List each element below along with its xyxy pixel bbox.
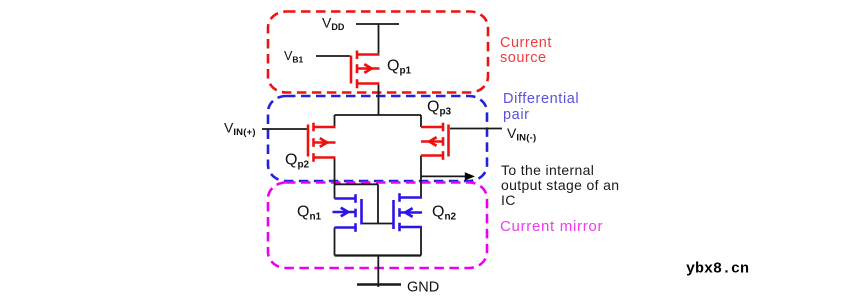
svg-text:ybx8.cn: ybx8.cn [686,261,749,278]
svg-text:To the internal: To the internal [501,162,594,178]
svg-text:pair: pair [503,107,530,123]
svg-text:IC: IC [501,192,516,208]
svg-text:Qp1: Qp1 [387,58,412,77]
svg-text:Differential: Differential [503,91,579,107]
svg-text:VDD: VDD [322,15,345,33]
svg-text:VIN(-): VIN(-) [507,125,536,144]
svg-text:VIN(+): VIN(+) [224,120,256,139]
svg-text:Current: Current [500,35,552,51]
svg-text:VB1: VB1 [284,49,303,65]
svg-text:Qp2: Qp2 [285,152,310,171]
svg-text:Qn1: Qn1 [297,204,322,223]
svg-text:GND: GND [407,280,439,296]
svg-text:Qp3: Qp3 [427,99,452,118]
svg-text:output stage of an: output stage of an [501,177,619,193]
svg-text:Current mirror: Current mirror [500,218,603,235]
svg-text:source: source [500,50,547,66]
svg-text:Qn2: Qn2 [432,204,457,223]
